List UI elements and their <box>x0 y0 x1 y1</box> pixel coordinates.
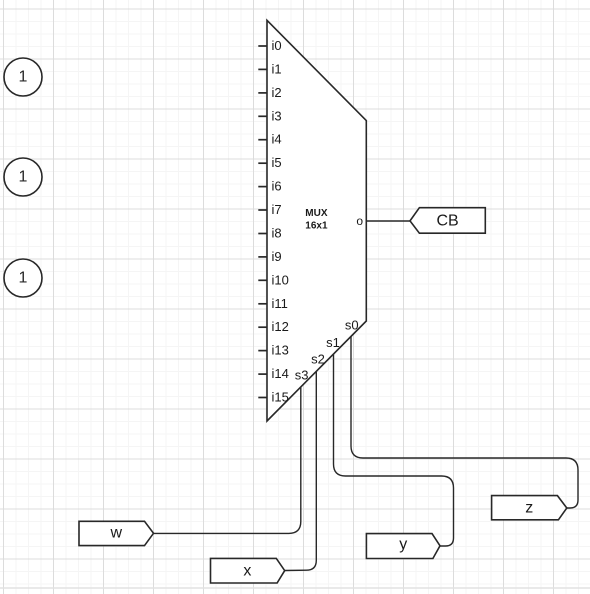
input pin i9 <box>258 256 267 258</box>
svg-text:i12: i12 <box>272 319 289 334</box>
label CB <box>410 208 485 234</box>
wire s2 to x <box>285 371 317 570</box>
input pin i5 <box>258 162 267 164</box>
svg-text:w: w <box>110 525 123 542</box>
svg-text:i0: i0 <box>272 38 282 53</box>
label x <box>211 558 285 583</box>
wire s3 to w <box>154 387 301 534</box>
input pin i8 <box>258 233 267 235</box>
input pin i6 <box>258 186 267 188</box>
svg-text:CB: CB <box>436 213 458 230</box>
input pin i3 <box>258 115 267 117</box>
svg-text:z: z <box>525 500 533 517</box>
output pin o <box>356 214 363 228</box>
svg-text:i11: i11 <box>272 296 288 311</box>
input pin i7 <box>258 209 267 211</box>
input pin i10 <box>258 279 267 281</box>
label y <box>366 534 440 559</box>
page boundary line <box>0 587 590 589</box>
svg-text:i1: i1 <box>272 61 282 76</box>
wire o to CB <box>367 220 411 222</box>
wire s1 to y <box>334 354 454 546</box>
svg-text:i6: i6 <box>272 179 282 194</box>
label z <box>492 496 567 520</box>
mux U1 body (MUX 16x1) <box>267 20 366 421</box>
svg-text:i14: i14 <box>272 366 289 381</box>
svg-text:s1: s1 <box>326 335 340 350</box>
svg-text:i5: i5 <box>272 155 282 170</box>
svg-text:o: o <box>356 214 363 228</box>
input pin i2 <box>258 92 267 94</box>
svg-text:y: y <box>399 536 407 553</box>
input pin i14 <box>258 373 267 375</box>
svg-text:i8: i8 <box>272 226 282 241</box>
input pin i15 <box>258 397 267 399</box>
input pin i12 <box>258 326 267 328</box>
constant source 1 (top) <box>4 58 42 96</box>
svg-text:1: 1 <box>19 269 28 286</box>
svg-text:i13: i13 <box>272 343 289 358</box>
svg-text:i2: i2 <box>272 85 282 100</box>
svg-text:s3: s3 <box>295 367 309 382</box>
svg-text:16x1: 16x1 <box>305 220 328 231</box>
input pin i4 <box>258 139 267 141</box>
svg-text:i9: i9 <box>272 249 282 264</box>
svg-text:x: x <box>243 563 251 580</box>
constant source 1 (bottom) <box>4 259 42 297</box>
svg-text:1: 1 <box>19 168 28 185</box>
svg-text:MUX: MUX <box>305 208 328 219</box>
svg-text:i7: i7 <box>272 202 282 217</box>
svg-text:i15: i15 <box>272 390 289 405</box>
input pin i0 <box>258 45 267 47</box>
svg-text:1: 1 <box>19 68 28 85</box>
svg-text:i3: i3 <box>272 108 282 123</box>
svg-text:i10: i10 <box>272 272 289 287</box>
wire s0 to z <box>351 337 578 509</box>
input pin i13 <box>258 350 267 352</box>
svg-text:s2: s2 <box>311 351 325 366</box>
label w <box>79 521 154 545</box>
svg-text:s0: s0 <box>345 317 359 332</box>
svg-text:i4: i4 <box>272 132 282 147</box>
constant source 1 (middle) <box>4 158 42 196</box>
input pin i11 <box>258 303 267 305</box>
input pin i1 <box>258 68 267 70</box>
